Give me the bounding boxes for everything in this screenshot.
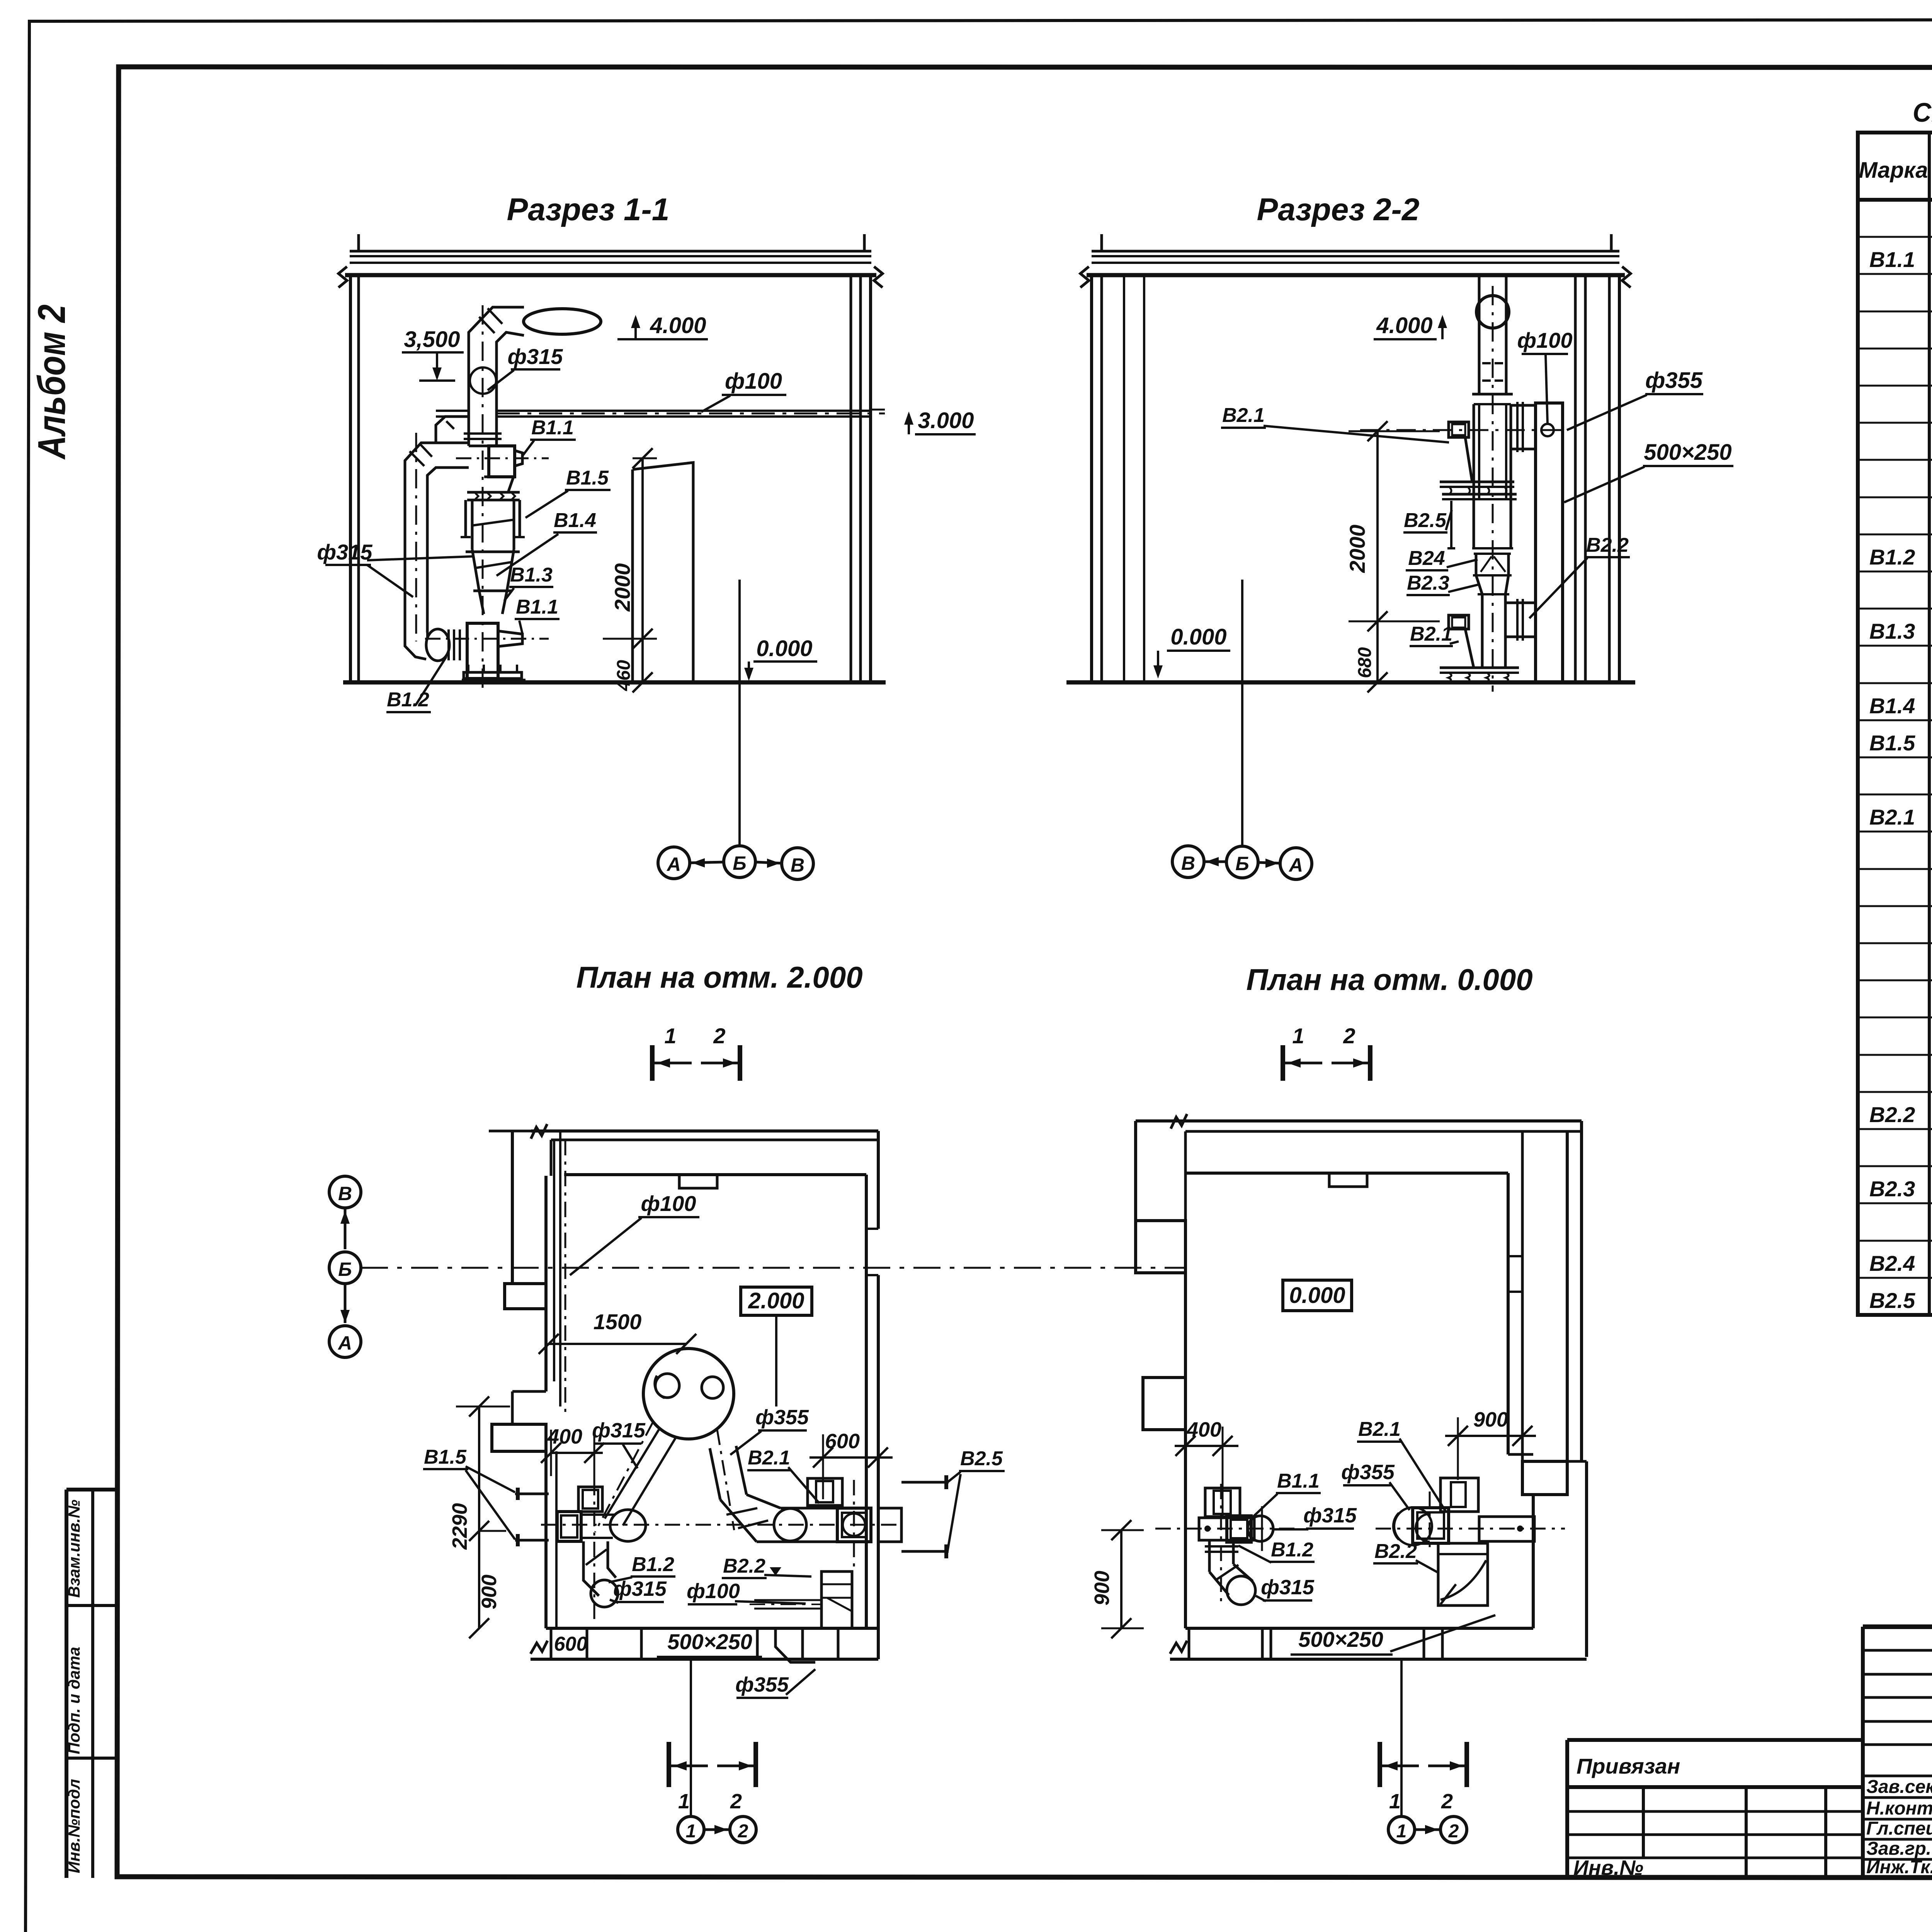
s11 exhaust oval outlet (524, 309, 601, 334)
svg-text:Б: Б (733, 852, 746, 874)
s11 door (633, 463, 693, 682)
svg-text:В: В (338, 1183, 352, 1204)
s22 left wall (1090, 275, 1093, 682)
plan2 B2 motor (808, 1478, 842, 1505)
svg-text:900: 900 (1090, 1571, 1114, 1605)
axis circles V B A under section 2-2 (1172, 846, 1204, 878)
svg-text:460: 460 (614, 660, 634, 691)
svg-text:0.000: 0.000 (1289, 1283, 1345, 1308)
section 1-1 floor (343, 680, 886, 685)
svg-text:Инв.№подл: Инв.№подл (65, 1779, 83, 1873)
svg-text:Альбом 2: Альбом 2 (30, 304, 73, 460)
s22 lower fan unit B2.1 (1449, 615, 1469, 629)
svg-text:В1.2: В1.2 (1869, 545, 1915, 569)
section 1-1 ceiling slab (350, 250, 871, 253)
svg-text:В2.5: В2.5 (960, 1447, 1003, 1470)
s22 floor (1066, 680, 1635, 685)
svg-text:В1.5: В1.5 (566, 467, 609, 489)
svg-text:2000: 2000 (610, 563, 634, 612)
svg-text:Гл.спец.: Гл.спец. (1866, 1818, 1932, 1839)
s11 upper left jog (436, 417, 469, 443)
s11 fan base (464, 672, 522, 679)
s11 bracket B1.5 (464, 500, 467, 537)
s22 round outlet circle (1476, 296, 1509, 328)
s11 duct segment with check valve B1.4 (471, 500, 474, 549)
s11 spring plate (467, 491, 520, 494)
plan2 inner top wall (564, 1173, 866, 1176)
svg-text:Разрез 2-2: Разрез 2-2 (1257, 192, 1420, 227)
svg-text:600: 600 (554, 1633, 588, 1655)
svg-text:4.000: 4.000 (650, 313, 706, 338)
svg-text:А: А (1288, 854, 1303, 876)
plan2 F355 bottom elbow (776, 1628, 815, 1662)
svg-text:400: 400 (1186, 1418, 1221, 1441)
s22 right wall (1574, 275, 1577, 682)
plan2 right wall (865, 1175, 868, 1628)
svg-text:ф100: ф100 (687, 1580, 740, 1603)
plan2 left lower boundary (512, 1390, 546, 1393)
plan2 big fan circle (643, 1349, 734, 1439)
svg-text:ф100: ф100 (1517, 328, 1573, 352)
s11 riser duct F315 (468, 348, 470, 446)
plan2 B2 elbow chamfer (720, 1500, 757, 1542)
plan0 top wall (1136, 1119, 1582, 1122)
s11 lower fan unit B1.1 (467, 623, 498, 679)
svg-text:В1.1: В1.1 (531, 417, 574, 439)
plan0 left boundary (1134, 1121, 1137, 1221)
plan2 B2.5 rods (901, 1481, 949, 1484)
svg-text:В2.2: В2.2 (1869, 1102, 1915, 1127)
plan0 section mark top (1281, 1045, 1285, 1081)
svg-text:1: 1 (686, 1821, 696, 1842)
plan2 B2 centerline (853, 1480, 855, 1569)
plan2 drain mark (770, 1567, 781, 1576)
plan2 F100 thin duct (754, 1599, 821, 1601)
plan2 axis circles (329, 1176, 361, 1208)
svg-text:3,500: 3,500 (404, 327, 460, 352)
svg-text:0.000: 0.000 (1170, 624, 1226, 650)
svg-text:В: В (1181, 852, 1195, 874)
plan2 B2 fan housing (837, 1508, 871, 1542)
s22 lower duct (1481, 594, 1484, 668)
svg-text:В1.2: В1.2 (632, 1553, 674, 1576)
svg-text:ф355: ф355 (1645, 368, 1703, 393)
section 1-1 right wall (850, 275, 852, 682)
plan0 inner top wall (1185, 1172, 1508, 1175)
svg-text:1: 1 (1389, 1790, 1401, 1813)
svg-text:В1.1: В1.1 (1869, 247, 1915, 272)
svg-text:900: 900 (478, 1575, 501, 1609)
svg-text:В2.5: В2.5 (1869, 1288, 1915, 1313)
s22 riser duct (1478, 276, 1481, 393)
s22 check valve B2.4 (1472, 547, 1513, 549)
svg-text:2: 2 (1441, 1790, 1453, 1813)
plan2 section mark bottom (667, 1742, 671, 1787)
s11 left lower elbow to fan inlet (405, 633, 426, 659)
svg-text:В2.3: В2.3 (1407, 572, 1449, 594)
svg-text:ф100: ф100 (725, 369, 782, 394)
svg-text:Спецификация вентиляционных: Спецификация вентиляционных установок (1913, 97, 1932, 128)
svg-text:В: В (791, 854, 804, 876)
svg-text:ф315: ф315 (317, 540, 373, 564)
plan0 right wall (1507, 1173, 1510, 1454)
svg-text:2.000: 2.000 (748, 1288, 804, 1313)
plan2 axis 1-2 circles bottom (690, 1659, 692, 1817)
plan0 axis circles bottom (1400, 1659, 1403, 1817)
left stamp column (65, 1490, 68, 1878)
s11 upper fan unit B1.1 (489, 446, 515, 477)
s22 flex insert B2.3 (1473, 574, 1512, 577)
plan2 F100 riser pipes (553, 1140, 555, 1381)
svg-text:В2.5: В2.5 (1404, 509, 1447, 532)
plan2 lower duct to grille (821, 1571, 852, 1628)
title block (1861, 1627, 1865, 1878)
svg-text:В1.1: В1.1 (516, 596, 558, 618)
svg-text:В1.4: В1.4 (1869, 694, 1915, 718)
svg-text:В2.2: В2.2 (723, 1555, 765, 1577)
privyazan table (1565, 1740, 1569, 1878)
plan2 dim 900 (479, 1530, 506, 1532)
s22 upper fan unit B2.1 (1449, 422, 1469, 437)
s11 F100 pipe (436, 410, 469, 412)
svg-text:0.000: 0.000 (756, 636, 812, 661)
svg-text:1: 1 (664, 1024, 676, 1048)
svg-text:500×250: 500×250 (667, 1629, 752, 1654)
svg-text:В24: В24 (1408, 547, 1445, 570)
axis circles A B V under section 1-1 (658, 847, 690, 879)
svg-text:Б: Б (338, 1259, 352, 1280)
svg-text:Привязан: Привязан (1577, 1754, 1680, 1778)
plan0 section mark bottom (1378, 1742, 1382, 1787)
section 1-1 left wall (349, 275, 352, 682)
svg-text:1500: 1500 (594, 1310, 642, 1334)
svg-text:ф355: ф355 (735, 1673, 789, 1696)
s11 flexible insert B1.3 (473, 590, 512, 592)
plan0 dim 900 left (1120, 1530, 1122, 1628)
svg-text:1: 1 (678, 1790, 690, 1813)
svg-text:В2.2: В2.2 (1374, 1540, 1417, 1563)
svg-text:А: А (666, 854, 681, 875)
svg-text:В1.3: В1.3 (1869, 619, 1915, 643)
svg-text:ф315: ф315 (592, 1419, 646, 1442)
svg-text:Зав.сект.: Зав.сект. (1866, 1777, 1932, 1797)
svg-text:В2.1: В2.1 (1410, 623, 1452, 645)
svg-text:2: 2 (738, 1821, 748, 1842)
svg-text:В2.1: В2.1 (1869, 805, 1915, 829)
svg-text:В1.5: В1.5 (424, 1446, 467, 1468)
svg-text:1: 1 (1396, 1821, 1407, 1842)
s11 left top elbow (405, 443, 469, 485)
s22 upper duct to panel (1511, 404, 1536, 407)
plan0 bottom wall (1185, 1627, 1533, 1630)
plan2 left boundary (511, 1131, 514, 1284)
svg-text:2: 2 (713, 1024, 725, 1048)
plan0 B2 unit (1440, 1478, 1478, 1512)
svg-text:ф100: ф100 (641, 1191, 696, 1216)
plan2 B1.5 bolts (515, 1493, 549, 1495)
svg-text:2: 2 (1448, 1821, 1459, 1842)
svg-text:В1.4: В1.4 (554, 509, 596, 532)
svg-text:В1.2: В1.2 (1271, 1539, 1313, 1561)
svg-text:2: 2 (730, 1790, 742, 1813)
svg-text:ф355: ф355 (1341, 1461, 1395, 1484)
plan2 top wall (531, 1129, 878, 1133)
svg-text:ф355: ф355 (755, 1406, 809, 1429)
svg-text:Зав.гр.: Зав.гр. (1866, 1838, 1931, 1859)
svg-text:План на отм. 0.000: План на отм. 0.000 (1246, 963, 1532, 997)
svg-text:680: 680 (1355, 647, 1375, 678)
svg-text:Подп. и дата: Подп. и дата (65, 1647, 83, 1754)
s22 F100 hole (1541, 424, 1554, 436)
plan2 bottom wall (546, 1627, 878, 1630)
plan2 F355 diagonal duct (710, 1448, 720, 1500)
svg-text:4.000: 4.000 (1376, 313, 1432, 338)
s11 left down-duct (404, 485, 406, 633)
svg-text:3.000: 3.000 (918, 408, 974, 433)
svg-text:ф315: ф315 (508, 344, 563, 369)
s11 inlet flex B1.2 (426, 629, 449, 661)
s11 dim 2000 (633, 457, 657, 459)
plan2 wall sleeve (878, 1508, 901, 1542)
svg-text:Инж.Тк.: Инж.Тк. (1866, 1857, 1932, 1878)
s22 hanger rod B2.5 (1450, 501, 1452, 548)
plan2 section mark top (650, 1045, 655, 1081)
svg-text:Марка: Марка (1859, 158, 1928, 183)
plan0 B1 unit (1205, 1488, 1240, 1517)
svg-text:В1.3: В1.3 (510, 564, 553, 586)
s11 top elbow (469, 307, 524, 359)
svg-text:2000: 2000 (1345, 525, 1369, 573)
svg-text:В1.5: В1.5 (1869, 731, 1915, 755)
svg-text:900: 900 (1473, 1408, 1508, 1431)
s22 lower stub to panel B2.2 (1505, 602, 1536, 604)
plan2 F315 diagonal duct (605, 1430, 659, 1519)
svg-text:План на отм. 2.000: План на отм. 2.000 (576, 960, 862, 994)
svg-text:Разрез 1-1: Разрез 1-1 (507, 192, 670, 227)
s22 500x250 panel duct (1536, 403, 1563, 682)
plan2 elevation box 2.000 (741, 1287, 812, 1315)
s22 upper unit plates and springs (1440, 481, 1514, 483)
svg-text:500×250: 500×250 (1644, 440, 1731, 465)
svg-text:1: 1 (1292, 1024, 1304, 1048)
s22 ceiling slab (1092, 250, 1619, 253)
svg-text:ф315: ф315 (1303, 1504, 1357, 1527)
svg-text:В1.1: В1.1 (1277, 1470, 1320, 1492)
plan0 B1 elbow down (1208, 1540, 1211, 1572)
s22 riser reducer flange (1472, 393, 1513, 396)
plan0 elevation box 0.000 (1283, 1280, 1352, 1311)
s11 dim 460 (641, 639, 644, 682)
plan0 B2 elbow down (1438, 1543, 1488, 1605)
svg-text:В2.2: В2.2 (1586, 534, 1629, 556)
plan2 dim 2290 (478, 1406, 480, 1628)
svg-text:2: 2 (1343, 1024, 1355, 1048)
plan2 B2 horizontal duct (781, 1507, 837, 1510)
svg-text:В2.3: В2.3 (1869, 1177, 1915, 1201)
svg-text:Н.контр.: Н.контр. (1866, 1798, 1932, 1819)
spec table grid (1858, 133, 1932, 1315)
svg-text:А: А (337, 1332, 352, 1354)
plan2 B1 unit (578, 1487, 602, 1512)
svg-text:Инв.№: Инв.№ (1573, 1856, 1643, 1879)
svg-text:ф315: ф315 (613, 1577, 667, 1600)
svg-text:400: 400 (547, 1425, 582, 1448)
svg-text:В2.4: В2.4 (1869, 1251, 1915, 1276)
s22 dim 2000 and 680 (1349, 430, 1440, 432)
svg-text:Б: Б (1235, 853, 1249, 874)
svg-text:В2.1: В2.1 (1222, 404, 1265, 427)
svg-text:2290: 2290 (448, 1503, 471, 1550)
svg-text:В2.1: В2.1 (1358, 1418, 1401, 1440)
svg-text:В2.1: В2.1 (748, 1447, 790, 1469)
svg-text:500×250: 500×250 (1298, 1627, 1383, 1651)
plan2 B1 elbow down (583, 1541, 599, 1596)
svg-text:Взам.инв.№: Взам.инв.№ (65, 1500, 83, 1598)
svg-text:ф315: ф315 (1261, 1576, 1315, 1599)
